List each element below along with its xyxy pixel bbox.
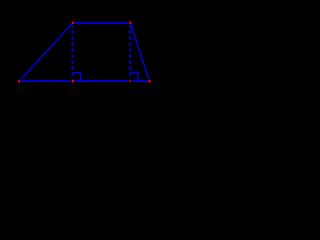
dashed altitude CF: [129, 24, 131, 80]
right-angle marker at E: [72, 73, 80, 81]
side AD (bottom base of trapezoid): [19, 80, 149, 82]
node A (bottom-left vertex): [17, 79, 21, 83]
node F (foot of altitude from C): [128, 79, 132, 83]
node E (foot of altitude from B): [71, 79, 75, 83]
right-angle marker at F: [130, 72, 138, 81]
side CD (right slanted side of trapezoid): [130, 23, 149, 81]
node D (bottom-right vertex): [148, 79, 152, 83]
side BC (top edge of trapezoid): [73, 22, 130, 24]
dashed altitude BE: [71, 24, 73, 80]
node B (top-left vertex): [71, 21, 75, 25]
side AB (left slanted side of trapezoid): [19, 23, 73, 81]
node C (top-right vertex): [128, 21, 132, 25]
